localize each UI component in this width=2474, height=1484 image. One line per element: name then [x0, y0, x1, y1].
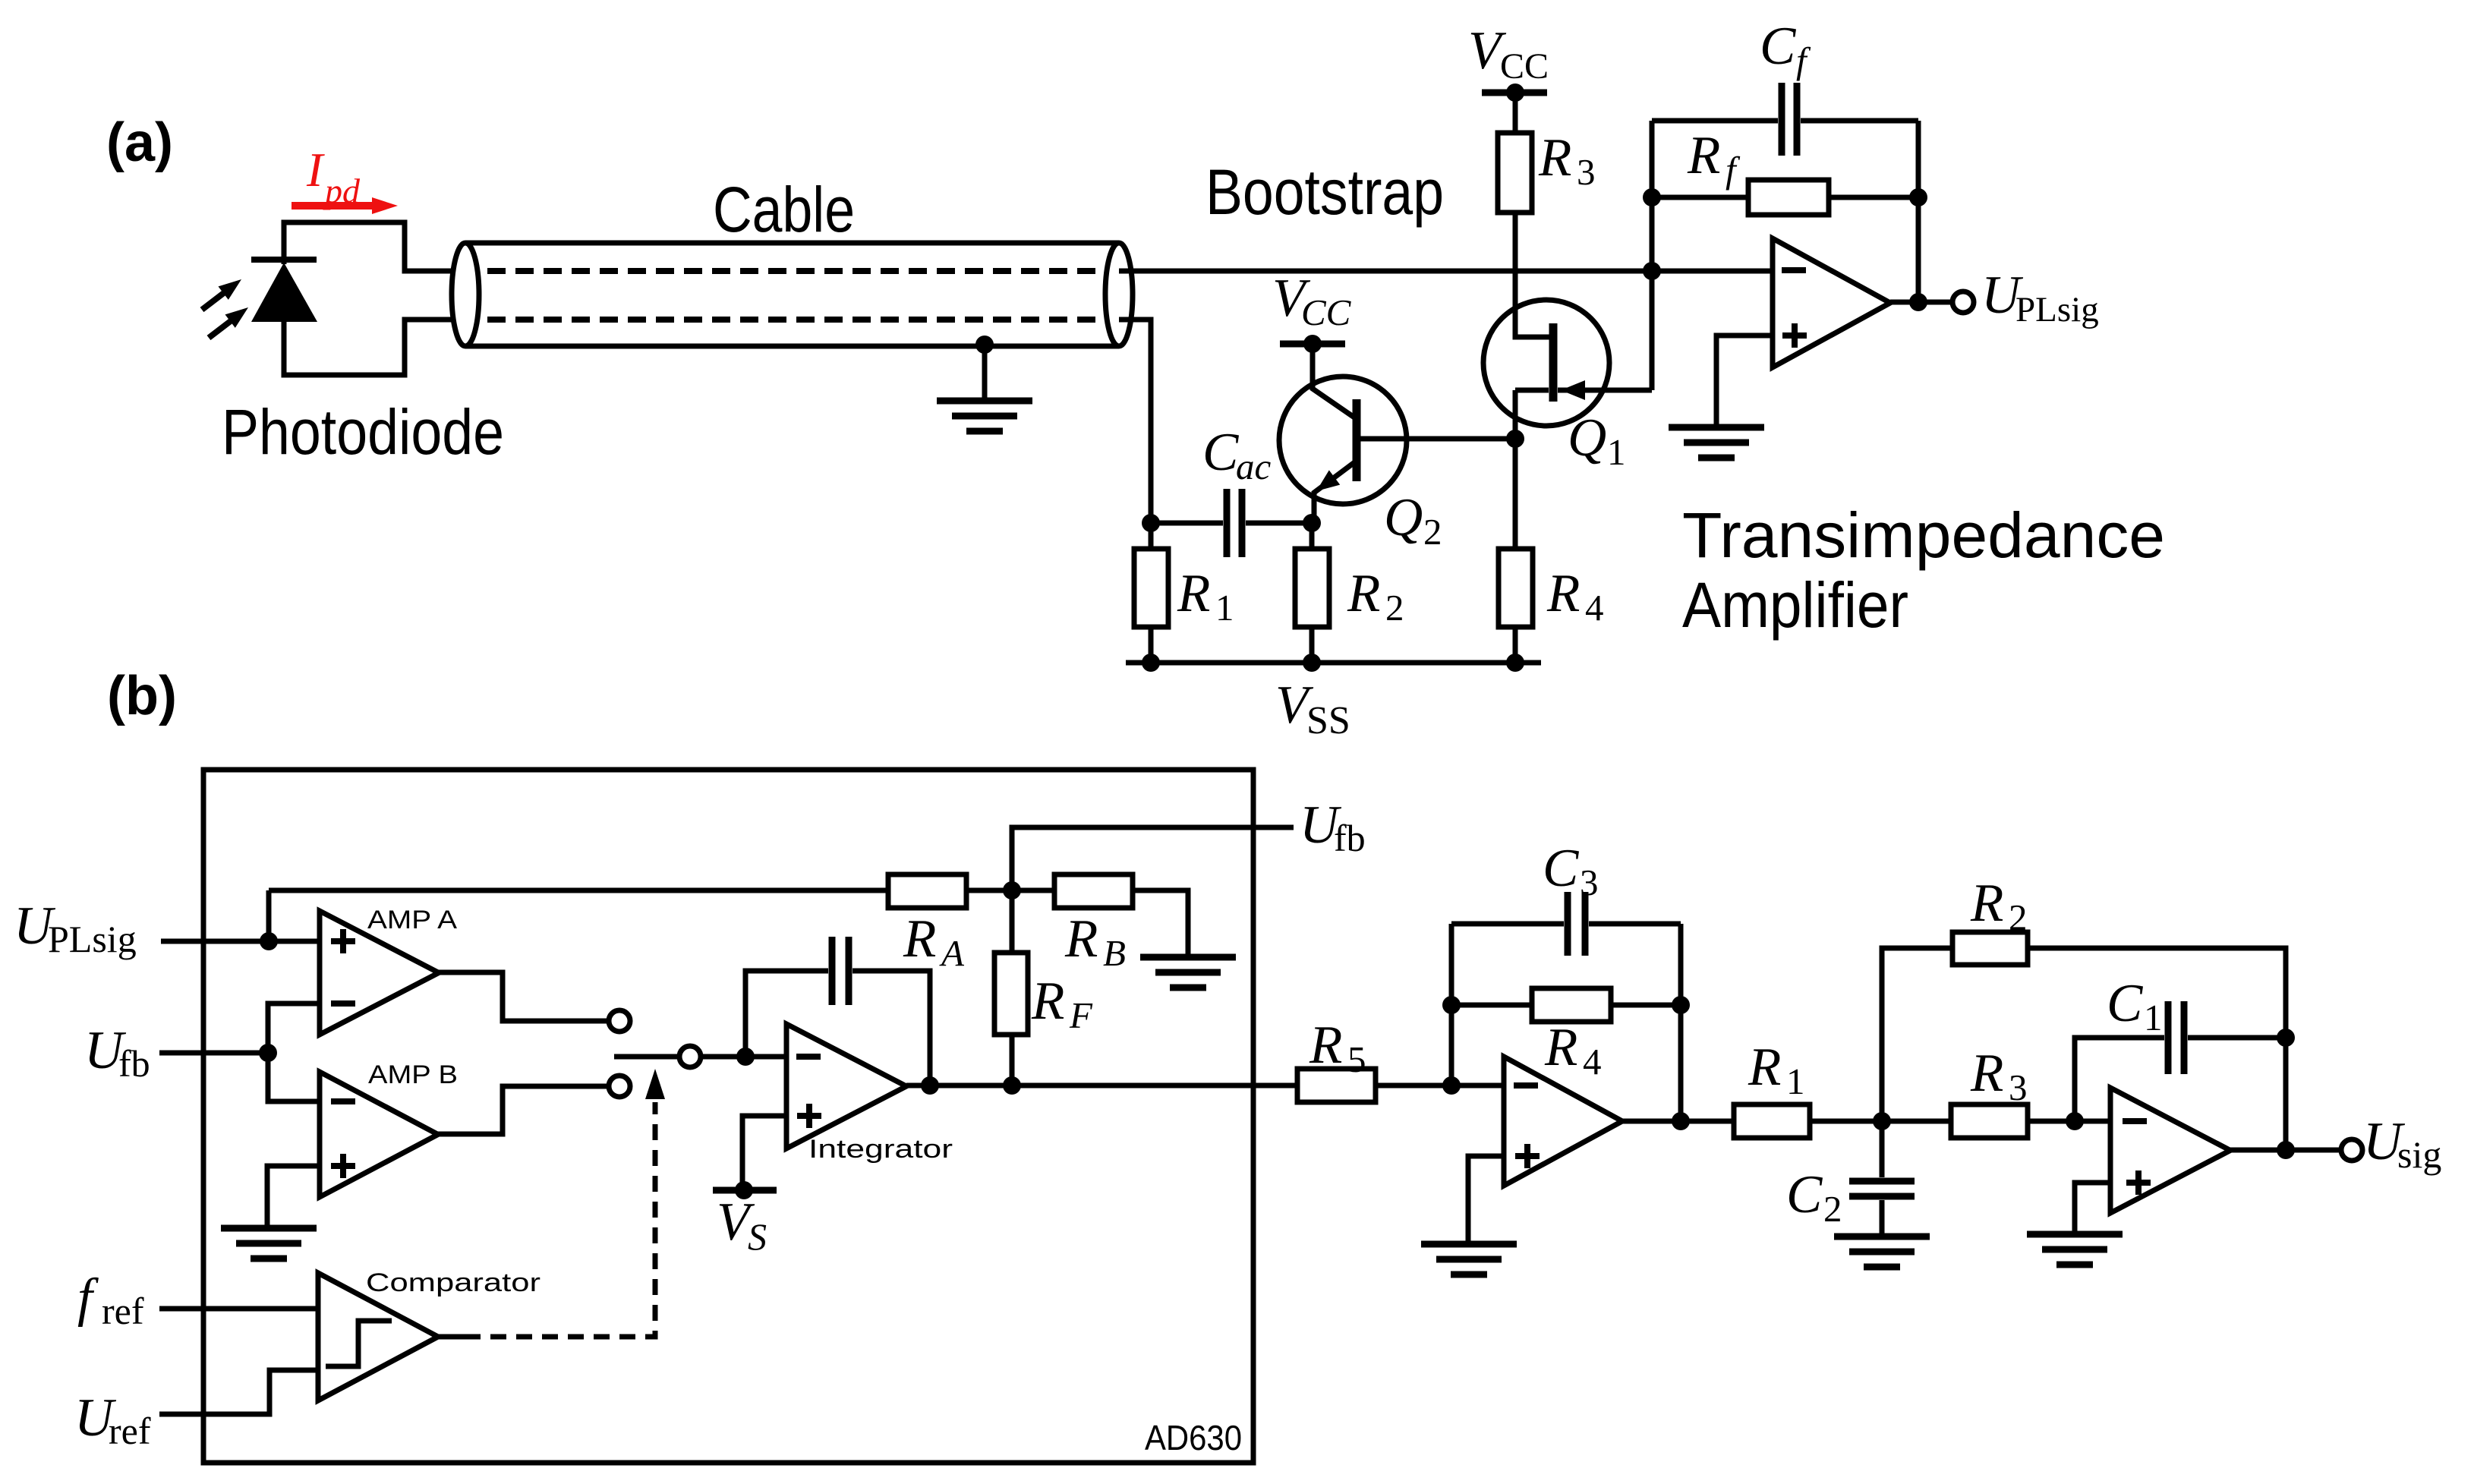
svg-text:(b): (b) [107, 666, 177, 726]
R2 loop left vertical [1882, 948, 1952, 1121]
Integrator minus sign [796, 1054, 821, 1060]
wire AMP B plus to ground [267, 1166, 320, 1227]
resistor Rf [1748, 180, 1829, 215]
svg-text:Comparator: Comparator [366, 1268, 540, 1297]
wire AMP B output [438, 1086, 609, 1134]
node R4 right dot [1672, 996, 1690, 1014]
svg-text:A: A [939, 932, 965, 974]
label Ufb (panel b input) [84, 1021, 150, 1085]
integrator cap loop right [853, 971, 930, 1085]
switch lever [614, 1054, 677, 1060]
ground RB [1140, 957, 1236, 988]
label AMP A [367, 906, 457, 934]
integrator capacitor plates [832, 937, 849, 1005]
svg-text:C: C [1786, 1165, 1823, 1224]
node C1 right dot [2277, 1029, 2295, 1047]
wire switch to integrator minus [702, 1054, 786, 1060]
wire RA feedback horizontal [269, 888, 888, 893]
label VSS [1275, 676, 1350, 742]
svg-text:ref: ref [109, 1410, 151, 1452]
AMP B minus sign [331, 1098, 355, 1104]
label Transimpedance [1682, 499, 2165, 571]
wire RA to RB [966, 888, 1054, 893]
label R1 (panel a) [1177, 564, 1234, 629]
label C1 [2107, 974, 2163, 1038]
svg-text:R: R [1347, 564, 1380, 623]
wire Ufb feedback up [1012, 827, 1294, 890]
C3 loop right vertical [1678, 924, 1684, 1121]
resistor R4 (panel a) [1499, 549, 1533, 627]
terminal Usig circle [2341, 1139, 2362, 1161]
wire R5 to filter node [1376, 1083, 1504, 1089]
svg-text:AMP A: AMP A [367, 906, 457, 934]
label Amplifier [1682, 569, 1908, 641]
cable inner conductor upper dashed [487, 268, 1102, 274]
photodiode diode cathode bar [251, 257, 317, 263]
label R4 (panel b) [1544, 1018, 1602, 1082]
svg-text:B: B [1103, 932, 1126, 974]
feedback left vertical [1650, 121, 1655, 271]
op-amp AMP A triangle [320, 911, 439, 1035]
label Ufb (top right) [1300, 796, 1366, 859]
wire R1 to VSS [1149, 627, 1154, 663]
wire Ufb input [159, 1051, 268, 1056]
comparator output stub [438, 1334, 465, 1340]
ground U1 plus [1669, 427, 1764, 458]
capacitor Cf top wire left [1652, 118, 1778, 124]
resistor R1 (panel b) [1734, 1104, 1810, 1138]
label Usig [2363, 1112, 2441, 1176]
label R5 [1309, 1016, 1366, 1080]
op-amp final triangle [2110, 1088, 2230, 1213]
svg-text:CC: CC [1301, 291, 1352, 333]
wire node to R2 [1309, 523, 1315, 549]
label Q1 [1568, 408, 1626, 473]
label Bootstrap [1205, 156, 1444, 228]
photodiode diode triangle [251, 263, 317, 322]
cable shield ground [937, 401, 1032, 431]
svg-text:R: R [1538, 128, 1571, 187]
transistor Q2 circle [1279, 377, 1407, 504]
node Rf left dot [1643, 188, 1661, 206]
wire VCC to R3 [1513, 93, 1518, 133]
label R2 (panel b) [1970, 874, 2028, 938]
svg-text:5: 5 [1347, 1038, 1366, 1080]
op-amp U1 TIA triangle [1773, 238, 1890, 367]
wire AMP A output [439, 972, 609, 1021]
AMP B plus sign [331, 1154, 355, 1178]
label C2 [1786, 1165, 1842, 1230]
svg-text:PLsig: PLsig [48, 918, 137, 960]
switch contact B circle [609, 1076, 630, 1097]
photodiode box outline [284, 222, 462, 375]
svg-text:1: 1 [2144, 997, 2163, 1038]
rail VSS [1126, 660, 1541, 666]
label R1 (panel b) [1748, 1038, 1805, 1102]
svg-text:2: 2 [1823, 1188, 1842, 1230]
node U1 output dot [1909, 293, 1927, 311]
svg-text:R: R [1748, 1038, 1781, 1097]
label Cac [1202, 423, 1272, 487]
wire Cac right [1246, 521, 1312, 526]
label VS [717, 1193, 767, 1258]
wire Rf right [1829, 195, 1918, 200]
integrator cap loop left [745, 971, 828, 1057]
node RA RB junction dot [1003, 881, 1021, 900]
label R3 (panel a) [1538, 128, 1596, 193]
Q1 gate wire with arrow [1558, 380, 1652, 400]
capacitor C1 plates [2168, 1001, 2184, 1074]
wire C3 top left [1451, 922, 1564, 927]
node filter1 minus dot [1442, 1076, 1461, 1095]
label Photodiode [222, 396, 504, 468]
wire final output [2230, 1148, 2340, 1153]
svg-text:C: C [1543, 839, 1580, 898]
Integrator plus sign [797, 1104, 821, 1128]
svg-text:Bootstrap: Bootstrap [1205, 156, 1444, 228]
light arrow 1 [202, 279, 241, 310]
wire RB to ground [1133, 890, 1188, 956]
svg-text:C: C [2107, 974, 2144, 1033]
label Ipd [306, 143, 361, 210]
ground C2 [1834, 1237, 1930, 1267]
label R2 (panel a) [1347, 564, 1404, 629]
label Comparator [366, 1268, 540, 1297]
wire Cac left [1151, 521, 1223, 526]
dashed control line [465, 1102, 655, 1337]
op-amp AMP B triangle [320, 1072, 438, 1197]
wire R3 to Q1 drain [1515, 213, 1550, 337]
AD630 box [203, 770, 1253, 1463]
label C3 [1543, 839, 1599, 903]
label UPLsig (panel a) [1981, 266, 2099, 329]
wire Q2 base to Q1 source node [1357, 436, 1515, 442]
label Rf [1687, 126, 1741, 191]
capacitor Cf top wire right [1801, 118, 1918, 124]
power VCC (Q2) label [1272, 269, 1352, 333]
wire U1 plus to ground [1716, 336, 1773, 426]
comparator triangle [318, 1273, 438, 1401]
node signal gate junction dot [1643, 262, 1661, 280]
node integrator output dot [921, 1076, 939, 1095]
svg-text:Amplifier: Amplifier [1682, 569, 1908, 641]
light arrow 2 [209, 307, 248, 338]
node VSS R4 dot [1506, 654, 1524, 672]
label R4 (panel a) [1546, 564, 1604, 629]
svg-text:PLsig: PLsig [2015, 290, 2099, 329]
svg-text:3: 3 [1580, 862, 1599, 903]
svg-text:Transimpedance: Transimpedance [1682, 499, 2165, 571]
label Q2 [1384, 488, 1442, 553]
svg-text:R: R [1546, 564, 1580, 623]
node VSS R1 dot [1142, 654, 1160, 672]
switch contact A circle [609, 1010, 630, 1032]
wire RF top [1010, 890, 1015, 953]
wire main signal line [1119, 269, 1773, 274]
wire fref input [159, 1306, 318, 1312]
power VS bar [713, 1181, 777, 1199]
svg-text:Q: Q [1568, 408, 1606, 468]
power VCC (R3) bar [1482, 83, 1547, 102]
svg-text:F: F [1069, 994, 1093, 1036]
svg-text:ref: ref [102, 1290, 144, 1332]
panel label (a) [106, 112, 173, 173]
wire UPLsig input [161, 939, 320, 944]
label Cf [1760, 17, 1811, 81]
cable inner conductor lower dashed [487, 317, 1102, 323]
svg-text:1: 1 [1607, 431, 1626, 473]
wire cable lower conductor to R1 [1119, 320, 1151, 549]
wire Ufb to AMP B minus [268, 1053, 320, 1101]
resistor R4 (panel b) [1532, 988, 1611, 1022]
wire Rf left [1652, 195, 1748, 200]
resistor RB [1054, 874, 1133, 908]
C1 loop left [2075, 1038, 2164, 1121]
svg-text:Integrator: Integrator [808, 1135, 953, 1164]
wire Q1 gate to signal node [1650, 271, 1655, 390]
label fref [77, 1268, 144, 1332]
wire R4 to VSS [1513, 627, 1518, 663]
wire R1 to C2 node [1810, 1119, 1951, 1124]
wire UPLsig node to RA wire [266, 890, 272, 941]
cable shield ground stem [982, 345, 988, 399]
final plus sign [2126, 1171, 2151, 1195]
capacitor C3 plates [1568, 892, 1585, 956]
wire Ufb to AMP A minus [268, 1004, 320, 1053]
Q1 channel bar [1549, 323, 1558, 402]
wire C2 stem top [1880, 1121, 1885, 1177]
svg-text:pd: pd [323, 172, 361, 210]
node Cac right dot [1303, 514, 1321, 532]
cable right ellipse [1105, 243, 1133, 346]
cable left ellipse [452, 243, 479, 346]
svg-text:Q: Q [1384, 488, 1423, 547]
wire node to R4 [1513, 439, 1518, 549]
ground final plus [2027, 1234, 2123, 1265]
svg-text:R: R [903, 909, 936, 969]
svg-text:3: 3 [1577, 151, 1596, 193]
svg-text:2: 2 [1385, 587, 1404, 629]
svg-text:AMP B: AMP B [368, 1060, 458, 1089]
filter1 plus sign [1515, 1144, 1540, 1168]
svg-text:fb: fb [118, 1042, 150, 1085]
node RF bottom dot [1003, 1076, 1021, 1095]
wire integrator output [906, 1083, 1297, 1089]
panel label (b) [107, 666, 177, 726]
capacitor Cf plates [1782, 83, 1797, 156]
node filter1 output dot [1672, 1112, 1690, 1130]
AMP A plus sign [331, 929, 355, 953]
control arrowhead [645, 1069, 665, 1099]
label RB [1064, 909, 1126, 974]
svg-text:4: 4 [1583, 1041, 1602, 1082]
switch common circle [679, 1046, 701, 1067]
U1 plus sign [1782, 323, 1807, 348]
Q2 base bar [1353, 399, 1361, 481]
node final minus dot [2066, 1112, 2084, 1130]
svg-text:ac: ac [1236, 446, 1272, 487]
wire RF bottom [1010, 1035, 1015, 1085]
capacitor C2 plates [1849, 1181, 1915, 1196]
svg-text:(a): (a) [106, 112, 173, 173]
wire final plus to ground [2075, 1183, 2110, 1233]
Q2 collector path [1313, 344, 1357, 419]
cable shield junction dot [975, 336, 994, 354]
C3 loop left vertical [1449, 924, 1454, 1085]
wire filter1 plus to ground [1468, 1156, 1504, 1243]
label AMP B [368, 1060, 458, 1089]
svg-text:R: R [1970, 1044, 2003, 1103]
label Uref [74, 1388, 151, 1452]
svg-text:S: S [748, 1215, 767, 1258]
wire C3 top right [1589, 922, 1681, 927]
node R4 left dot [1442, 996, 1461, 1014]
svg-text:R: R [1309, 1016, 1342, 1075]
AMP A minus sign [331, 1000, 355, 1007]
resistor R2 (panel a) [1295, 549, 1329, 627]
resistor R5 [1297, 1069, 1376, 1102]
svg-text:R: R [1544, 1018, 1577, 1077]
wire R2 to VSS [1309, 627, 1315, 663]
resistor RF [994, 953, 1028, 1035]
wire R4 left [1451, 1003, 1532, 1008]
filter1 minus sign [1514, 1082, 1538, 1089]
node integrator minus dot [736, 1048, 755, 1066]
svg-text:R: R [1064, 909, 1098, 969]
svg-text:R: R [1687, 126, 1720, 185]
svg-text:sig: sig [2397, 1133, 2441, 1176]
svg-text:Cable: Cable [713, 174, 855, 245]
resistor R3 (panel a) [1498, 133, 1532, 213]
node VSS R2 dot [1303, 654, 1321, 672]
power VCC (Q2) bar [1280, 335, 1345, 353]
svg-text:4: 4 [1585, 587, 1604, 629]
svg-text:1: 1 [1786, 1060, 1805, 1102]
node Cac left dot [1142, 514, 1160, 532]
transistor Q1 circle [1483, 300, 1609, 426]
op-amp Integrator triangle [786, 1024, 906, 1148]
label R3 (panel b) [1970, 1044, 2028, 1108]
wire R2 right and down [2028, 948, 2286, 1150]
label RA [903, 909, 965, 974]
wire C2 stem bottom [1880, 1200, 1885, 1235]
op-amp filter1 triangle [1504, 1057, 1622, 1186]
resistor R3b [1951, 1104, 2028, 1138]
node final output dot [2277, 1141, 2295, 1159]
node Q1 source junction dot [1506, 430, 1524, 448]
current arrow Ipd [292, 197, 398, 214]
node Ufb dot [259, 1044, 277, 1062]
ground AMP B plus [221, 1228, 317, 1259]
U1 minus sign [1782, 267, 1806, 273]
wire R4 right [1611, 1003, 1681, 1008]
comparator step symbol [326, 1321, 392, 1366]
svg-text:Photodiode: Photodiode [222, 396, 504, 468]
svg-text:C: C [1760, 17, 1797, 76]
svg-text:2: 2 [2009, 896, 2028, 938]
resistor RA [888, 874, 966, 908]
feedback right vertical [1916, 121, 1921, 302]
label UPLsig (panel b input) [14, 896, 137, 960]
Q1 source segment [1515, 390, 1549, 439]
wire U1 output [1890, 300, 1952, 305]
final minus sign [2123, 1118, 2147, 1124]
terminal UPLsig circle [1952, 291, 1974, 313]
wire Uref input [159, 1370, 318, 1414]
wire Integrator plus to VS [742, 1116, 786, 1190]
svg-text:AD630: AD630 [1145, 1418, 1242, 1457]
node Rf right dot [1909, 188, 1927, 206]
wire R3 to final minus [2028, 1119, 2110, 1124]
svg-text:R: R [1177, 564, 1210, 623]
label AD630 [1145, 1418, 1242, 1457]
ground filter1 plus [1421, 1244, 1517, 1274]
node UPLsig dot [260, 932, 278, 950]
Q2 emitter path [1314, 461, 1357, 523]
label Cable [713, 174, 855, 245]
svg-text:I: I [306, 143, 325, 197]
resistor R1 (panel a) [1134, 549, 1168, 627]
svg-text:2: 2 [1423, 511, 1442, 553]
resistor R2 (panel b) [1952, 932, 2028, 965]
cable cylinder body [465, 243, 1119, 346]
svg-text:SS: SS [1306, 699, 1350, 742]
label RF [1031, 972, 1093, 1036]
capacitor Cac plates [1227, 489, 1242, 557]
svg-text:C: C [1202, 423, 1240, 482]
wire C1 right [2188, 1035, 2286, 1041]
wire filter1 output [1622, 1119, 1734, 1124]
svg-text:R: R [1970, 874, 2003, 933]
svg-text:fb: fb [1334, 817, 1366, 859]
svg-text:CC: CC [1500, 46, 1549, 87]
node C2 junction dot [1873, 1112, 1891, 1130]
label Integrator [808, 1135, 953, 1164]
svg-text:R: R [1031, 972, 1064, 1031]
svg-text:1: 1 [1215, 587, 1234, 629]
power VCC (R3) label [1468, 21, 1549, 87]
